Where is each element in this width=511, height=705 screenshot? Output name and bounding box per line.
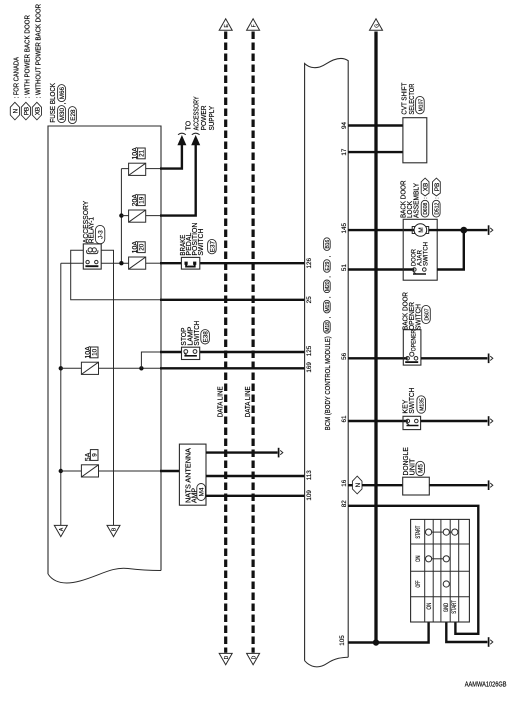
- svg-text:ASSEMBLY: ASSEMBLY: [414, 183, 421, 218]
- wire opener switch to ground: [421, 357, 488, 359]
- wire motor to ground: [429, 229, 488, 231]
- connector J-3: [95, 225, 104, 243]
- svg-text:105: 105: [339, 635, 346, 646]
- wire key switch to ground: [421, 420, 488, 422]
- brace mark 1: [178, 133, 186, 135]
- svg-text:20: 20: [139, 243, 146, 251]
- svg-text:M18: M18: [325, 322, 331, 332]
- hexagon XB (back door lock): [421, 178, 429, 199]
- label brake pedal position switch: [180, 223, 205, 256]
- svg-text:125: 125: [306, 345, 313, 356]
- fuse 10A 21: [129, 147, 146, 176]
- svg-text:CVT SHIFT: CVT SHIFT: [402, 82, 409, 115]
- label TO ACCESSORY POWER SUPPLY: [186, 96, 217, 130]
- svg-text:51: 51: [341, 264, 348, 272]
- svg-text:M135: M135: [420, 398, 426, 411]
- page arrow down data line 1: [219, 653, 232, 664]
- junction dot fuse10 feed: [59, 366, 63, 370]
- svg-text:,: ,: [325, 276, 332, 278]
- svg-text:N: N: [13, 108, 20, 113]
- fuse 5A 9: [81, 450, 98, 477]
- svg-text:169: 169: [306, 362, 313, 373]
- connector E28: [68, 107, 76, 124]
- svg-text:J-3: J-3: [98, 230, 105, 239]
- svg-text:TO: TO: [186, 120, 193, 130]
- label back door lock assembly: [400, 180, 420, 218]
- wire fuse20 to brake pedal position switch: [160, 262, 181, 264]
- fuse 10A 20: [129, 241, 146, 270]
- accessory relay J-3: [83, 244, 101, 269]
- svg-text:9: 9: [91, 453, 98, 457]
- svg-text:AAMWA1026GB: AAMWA1026GB: [465, 681, 507, 688]
- svg-text:FUSE BLOCK: FUSE BLOCK: [50, 83, 57, 123]
- svg-text:61: 61: [341, 415, 348, 423]
- svg-text:126: 126: [306, 257, 313, 268]
- junction dot fuse20: [119, 261, 123, 265]
- svg-text:N: N: [355, 482, 362, 487]
- ground symbol ignition switch: [489, 637, 493, 647]
- svg-text:POWER: POWER: [201, 105, 208, 130]
- page arrow up data line 1: [219, 19, 232, 30]
- hexagon symbol XB: [32, 102, 41, 120]
- svg-text:B: B: [112, 527, 118, 531]
- wire fuse19 output to accessory supply arrow: [160, 142, 196, 216]
- door ajar switch symbol: [413, 268, 427, 274]
- svg-text:D608: D608: [423, 203, 429, 215]
- svg-text:,: ,: [60, 103, 67, 105]
- page arrow down A (fuse block feed): [54, 525, 67, 536]
- wire BCM 94 to CVT shift selector: [348, 124, 403, 126]
- page arrow up power line: [370, 19, 383, 30]
- wire relay coil left branch to BCM 25: [71, 250, 161, 300]
- brace mark 2: [192, 133, 200, 135]
- svg-text:94: 94: [341, 122, 348, 130]
- svg-text:AMP: AMP: [192, 488, 199, 503]
- wire relay contact row y263: [61, 262, 129, 264]
- connector E29: [324, 256, 333, 273]
- page arrow up data line 2: [247, 19, 260, 30]
- svg-text:D512: D512: [435, 203, 441, 215]
- svg-text:: WITH POWER BACK DOOR: : WITH POWER BACK DOOR: [24, 15, 31, 99]
- wire relay coil right branch down: [101, 250, 113, 525]
- back door lock assembly box: [403, 219, 437, 280]
- key switch box M135: [403, 416, 421, 429]
- svg-text:,: ,: [325, 316, 332, 318]
- connector M19: [324, 296, 333, 313]
- svg-text:,: ,: [325, 296, 332, 298]
- svg-text:,: ,: [325, 256, 332, 258]
- NATS antenna amp box M4: [179, 444, 206, 505]
- svg-text:A: A: [59, 527, 65, 531]
- label key switch: [403, 388, 426, 414]
- wire BCM 16 to dongle unit: [348, 484, 353, 486]
- hexagon PB (back door lock): [433, 178, 441, 199]
- svg-text:M107: M107: [418, 99, 424, 112]
- svg-text:M66: M66: [59, 86, 66, 99]
- connector B16: [324, 238, 331, 251]
- wire fuse20 to block edge: [146, 262, 161, 264]
- opener switch symbol: [405, 352, 418, 362]
- svg-text:START: START: [415, 526, 422, 539]
- junction dot back door lock ground: [460, 227, 467, 234]
- svg-text:SWITCH: SWITCH: [422, 242, 429, 266]
- svg-text:: WITHOUT POWER BACK DOOR: : WITHOUT POWER BACK DOOR: [35, 4, 42, 99]
- hexagon symbol PB: [21, 102, 30, 120]
- svg-text:M30: M30: [59, 107, 66, 120]
- connector D512: [433, 200, 441, 217]
- label door ajar switch: [410, 242, 429, 266]
- svg-text:DATA LINE: DATA LINE: [245, 386, 252, 417]
- wire fuse bus vertical x121: [121, 169, 128, 264]
- wire NATS to BCM pin 113: [206, 475, 305, 477]
- back door opener switch box: [403, 330, 421, 365]
- svg-text:M20: M20: [325, 281, 331, 291]
- wire fuse19 row: [121, 215, 161, 217]
- svg-text:START: START: [451, 600, 458, 614]
- svg-text:E38: E38: [203, 331, 210, 343]
- ground symbol NATS shield: [279, 448, 283, 458]
- ignition switch table: [411, 519, 470, 622]
- svg-text:PB: PB: [434, 183, 441, 191]
- svg-text:F: F: [252, 24, 258, 27]
- svg-text:E28: E28: [70, 109, 77, 121]
- wire NATS shield to ground: [206, 451, 278, 453]
- ground symbol key switch: [489, 416, 493, 426]
- wire hexagon to dongle unit: [362, 484, 403, 486]
- fuse 20A 19: [129, 194, 146, 223]
- svg-text:OPENER: OPENER: [410, 330, 417, 352]
- arrow to accessory power supply 2: [191, 135, 200, 145]
- fuse 10A 10: [81, 346, 98, 375]
- ground symbol dongle unit: [489, 480, 493, 490]
- wire BCM 17 to CVT shift selector: [348, 151, 403, 153]
- ground symbol back door lock: [489, 225, 493, 235]
- wire branch to stop lamp switch: [141, 352, 161, 368]
- svg-text:D: D: [251, 655, 257, 659]
- power line vertical: [374, 32, 377, 643]
- wire NATS to BCM pin 109: [206, 495, 305, 497]
- svg-text:G: G: [375, 24, 381, 28]
- connector D608: [421, 200, 429, 217]
- wire fuse9 to NATS antenna amp: [160, 470, 179, 472]
- wire relay contact feed vertical x61: [60, 263, 62, 525]
- wire 25 to BCM: [160, 299, 305, 301]
- svg-text:16: 16: [341, 479, 348, 487]
- svg-text:DATA LINE: DATA LINE: [218, 386, 225, 417]
- ignition contacts OFF row: [443, 581, 449, 587]
- fuse block outline: [48, 126, 161, 574]
- svg-text:ON: ON: [415, 555, 422, 562]
- svg-text:SUPPLY: SUPPLY: [209, 106, 216, 131]
- svg-text:M4: M4: [199, 487, 206, 496]
- arrow to accessory power supply 1: [177, 135, 186, 145]
- label CVT shift selector: [402, 82, 425, 115]
- hexagon N on wire 16: [352, 476, 362, 494]
- key switch symbol: [406, 419, 419, 425]
- svg-text:ACCESSORY: ACCESSORY: [193, 96, 200, 130]
- wire fuse21 to block edge: [146, 168, 161, 170]
- ignition contacts ON row: [426, 556, 450, 562]
- svg-text:25: 25: [306, 296, 313, 304]
- svg-text:ON: ON: [426, 602, 433, 609]
- junction dot stop lamp branch: [139, 366, 143, 370]
- connector E38: [201, 330, 210, 344]
- wire dongle unit to ground: [429, 484, 487, 486]
- svg-text:SWITCH: SWITCH: [194, 321, 201, 346]
- svg-text:10: 10: [91, 348, 98, 356]
- svg-text:SELECTOR: SELECTOR: [409, 84, 416, 115]
- svg-text:56: 56: [341, 352, 348, 360]
- svg-text:XB: XB: [423, 183, 430, 191]
- svg-text:SWITCH: SWITCH: [198, 229, 205, 256]
- connector M66: [58, 85, 67, 105]
- svg-text:D: D: [224, 655, 230, 659]
- svg-text:BCM (BODY CONTROL MODULE): BCM (BODY CONTROL MODULE): [325, 336, 332, 430]
- connector M30: [58, 106, 66, 123]
- connector E37: [208, 239, 217, 253]
- svg-text:109: 109: [306, 490, 313, 501]
- hexagon symbol N (for Canada legend): [10, 102, 19, 120]
- svg-text:145: 145: [341, 222, 348, 233]
- wire fuse10 to BCM pin 169: [160, 367, 305, 369]
- svg-text:19: 19: [139, 196, 146, 204]
- wire BCM 145 to back door lock motor: [348, 229, 414, 231]
- svg-text:21: 21: [139, 149, 146, 157]
- svg-text:OFF: OFF: [415, 580, 422, 587]
- svg-text:M5: M5: [418, 464, 425, 473]
- label back door opener switch: [403, 292, 431, 330]
- connector M18: [324, 316, 333, 333]
- svg-text:PB: PB: [24, 107, 31, 115]
- wire fuse9 row: [61, 470, 161, 472]
- data line 1 (CAN): [224, 32, 227, 653]
- fuse block torn bottom edge: [48, 568, 161, 583]
- svg-text::: :: [423, 197, 429, 198]
- connector M20: [324, 276, 333, 293]
- wire BCM 82 to ignition switch START: [348, 506, 478, 634]
- svg-text::: :: [434, 197, 440, 198]
- svg-text:SWITCH: SWITCH: [409, 388, 416, 414]
- data line 2 (CAN): [252, 32, 255, 653]
- svg-text:B16: B16: [325, 239, 331, 248]
- svg-text:E37: E37: [209, 241, 216, 253]
- wire ignition GND to ground: [446, 622, 487, 642]
- svg-text:E29: E29: [325, 261, 331, 270]
- CVT shift selector box M107: [403, 118, 427, 163]
- BCM body control module outline: [305, 58, 349, 666]
- label stop lamp switch: [181, 321, 201, 346]
- motor M symbol: [412, 224, 429, 237]
- svg-text:M19: M19: [325, 302, 331, 312]
- svg-text:D607: D607: [425, 308, 431, 320]
- wire stop lamp feed thick: [160, 351, 182, 353]
- wire fuse21 output to accessory supply arrow: [160, 142, 182, 169]
- wire BCM 51 to door ajar switch: [348, 268, 414, 270]
- ground symbol opener switch: [489, 354, 493, 364]
- junction dot power line to ignition feed: [373, 639, 379, 645]
- svg-text:RELAY-1: RELAY-1: [89, 217, 96, 243]
- svg-text:GND: GND: [443, 603, 450, 613]
- dongle unit box M5: [403, 477, 430, 495]
- wire junction fuse19: [119, 213, 123, 217]
- svg-text:113: 113: [306, 470, 313, 481]
- wire BCM 56 to opener switch: [348, 357, 407, 359]
- stop lamp switch E38: [182, 347, 200, 359]
- svg-text:: FOR CANADA: : FOR CANADA: [13, 57, 20, 99]
- svg-text:82: 82: [341, 500, 348, 508]
- svg-text:XB: XB: [35, 107, 42, 115]
- wire stop lamp switch to BCM pin 125: [200, 351, 305, 353]
- wire fuse10 row: [61, 367, 161, 369]
- junction dot fuse9 feed: [59, 469, 63, 473]
- svg-text:E: E: [224, 23, 230, 27]
- wire BCM 105 to ignition switch ON: [348, 622, 428, 643]
- label dongle unit: [403, 447, 425, 476]
- page arrow down B (relay coil): [107, 525, 120, 536]
- svg-text:M: M: [418, 227, 425, 232]
- svg-text:17: 17: [341, 148, 348, 156]
- page arrow down data line 2: [247, 653, 260, 664]
- wire brake switch to BCM pin 126: [200, 262, 305, 264]
- wire ajar switch up to motor wire: [437, 230, 464, 269]
- wire BCM 61 to key switch: [348, 420, 408, 422]
- brake pedal position switch E37: [181, 257, 199, 269]
- ignition contacts START row: [426, 529, 458, 535]
